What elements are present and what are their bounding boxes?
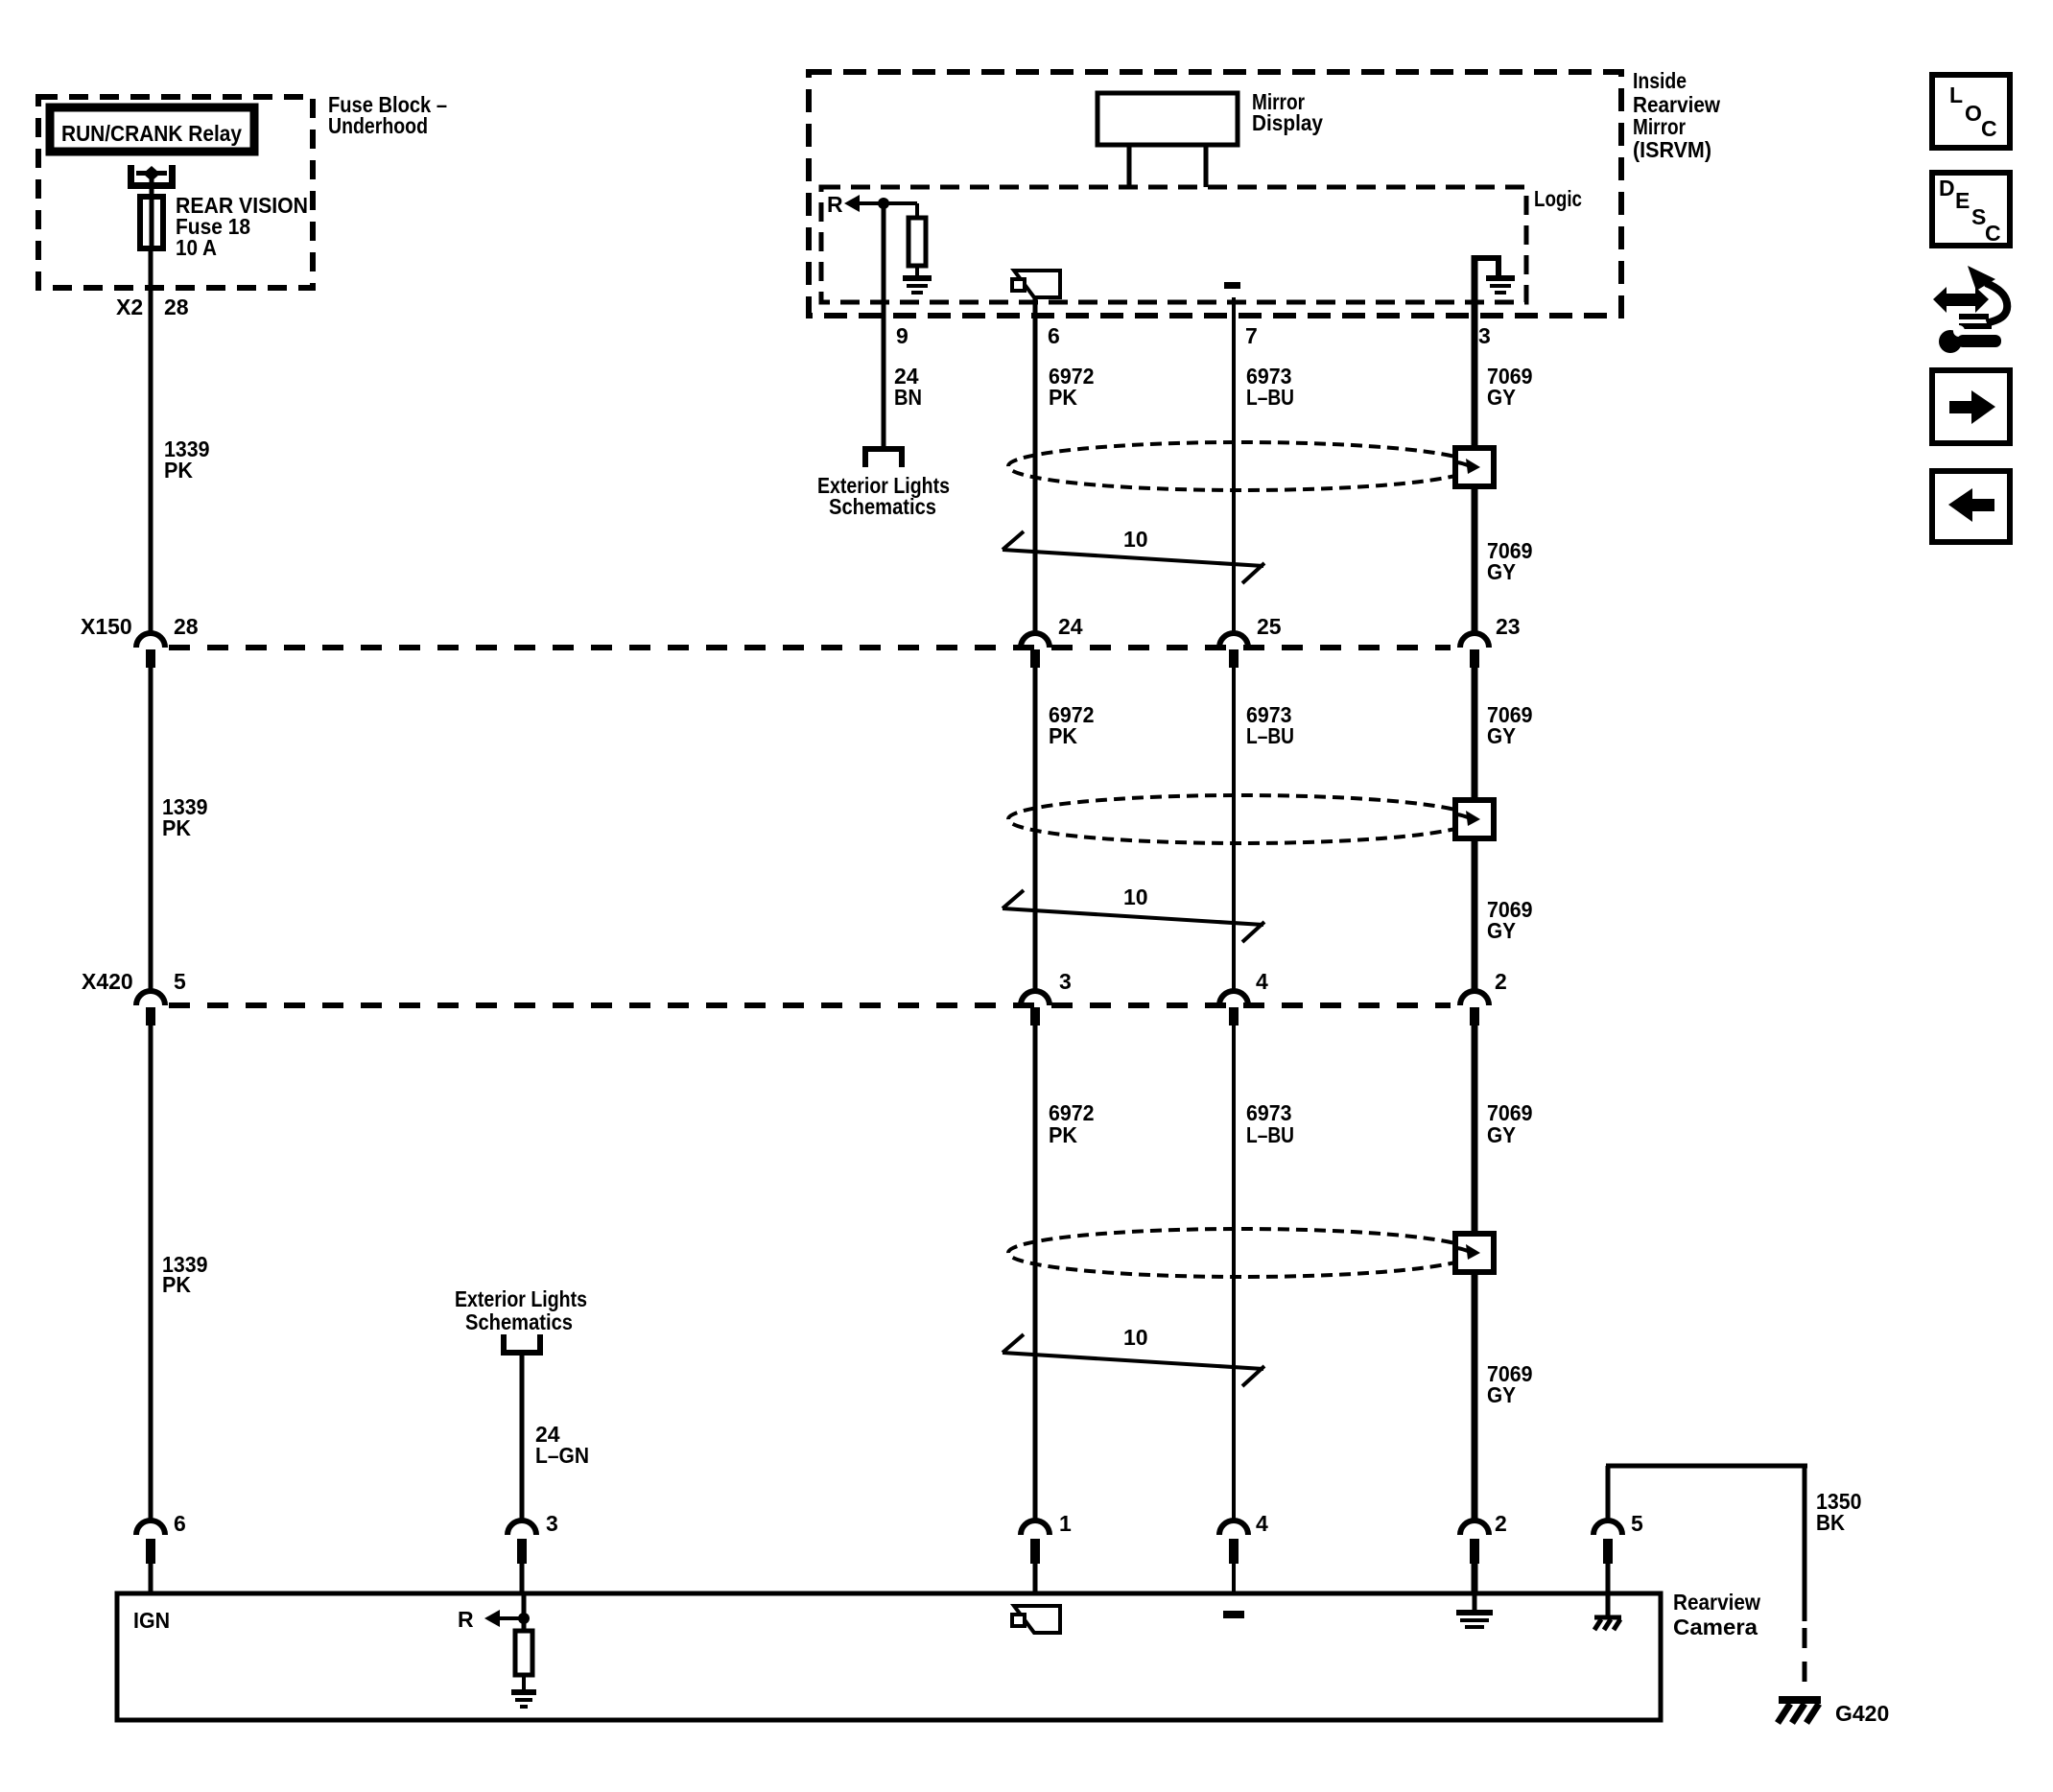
svg-text:6: 6 xyxy=(1048,323,1060,348)
cable 10 crossing xyxy=(1003,908,1263,925)
svg-text:10: 10 xyxy=(1123,527,1148,552)
camera icon logic xyxy=(1012,271,1060,297)
svg-text:PK: PK xyxy=(1049,385,1077,410)
svg-text:Underhood: Underhood xyxy=(328,113,428,138)
svg-text:10: 10 xyxy=(1123,1325,1148,1350)
fuse block underhood dashed box xyxy=(38,97,313,288)
svg-text:BN: BN xyxy=(894,385,922,410)
svg-text:(ISRVM): (ISRVM) xyxy=(1633,137,1711,162)
twisted pair shield ellipse xyxy=(1008,442,1475,490)
svg-text:GY: GY xyxy=(1487,1382,1516,1407)
icon repair instructions xyxy=(1933,266,2007,353)
svg-text:E: E xyxy=(1955,188,1970,213)
svg-text:PK: PK xyxy=(162,815,191,840)
mirror display box xyxy=(1097,93,1238,145)
connector X150 pin 23 xyxy=(1460,633,1489,648)
wire pin5 loop to 1350 BK xyxy=(1606,1466,1611,1521)
svg-text:GY: GY xyxy=(1487,1122,1516,1147)
wire 6972 PK section2 xyxy=(1033,667,1038,992)
connector row X150 dashed line xyxy=(169,645,1451,650)
fuse F18 REAR VISION 10A xyxy=(140,197,163,248)
svg-text:X150: X150 xyxy=(81,614,132,639)
cable 10 crossing xyxy=(1003,550,1263,566)
inline connector camera pin 2 xyxy=(1460,1521,1489,1535)
wire 7069 GY section2 xyxy=(1472,667,1478,992)
icon LOC xyxy=(1932,75,2010,148)
relay output pin symbol xyxy=(128,165,176,189)
svg-text:X420: X420 xyxy=(82,969,133,994)
svg-text:L–BU: L–BU xyxy=(1246,385,1294,410)
svg-text:23: 23 xyxy=(1496,614,1521,639)
svg-text:PK: PK xyxy=(1049,723,1077,748)
twisted pair shield ellipse xyxy=(1008,1229,1475,1277)
svg-text:1: 1 xyxy=(1059,1511,1072,1536)
svg-text:GY: GY xyxy=(1487,385,1516,410)
camera icon camera box xyxy=(1012,1606,1060,1633)
ground camera box xyxy=(511,1689,536,1695)
inline connector camera pin 5 xyxy=(1593,1521,1622,1535)
minus sign logic xyxy=(1224,282,1240,289)
svg-text:D: D xyxy=(1939,176,1955,200)
inline connector camera pin 6 xyxy=(136,1521,165,1535)
resistor camera box xyxy=(515,1631,532,1675)
svg-text:IGN: IGN xyxy=(133,1608,170,1633)
svg-text:7: 7 xyxy=(1245,323,1258,348)
connector X150 pin 24 xyxy=(1021,633,1050,648)
svg-text:4: 4 xyxy=(1256,969,1268,994)
wire 7069 GY pin 3 section1 xyxy=(1472,255,1478,634)
icon arrow left xyxy=(1932,471,2010,542)
wire 6972 PK section3 xyxy=(1033,1025,1038,1521)
icon DESC xyxy=(1932,173,2010,246)
svg-text:Rearview: Rearview xyxy=(1673,1590,1760,1615)
connector X420 pin 3 xyxy=(1021,991,1050,1005)
svg-text:Schematics: Schematics xyxy=(465,1309,573,1334)
relay RUN/CRANK Relay xyxy=(50,107,254,152)
connector row X420 dashed line xyxy=(169,1002,1451,1008)
svg-text:G420: G420 xyxy=(1835,1701,1889,1726)
logic dashed box xyxy=(821,187,1526,302)
svg-text:Schematics: Schematics xyxy=(829,494,936,519)
svg-text:Display: Display xyxy=(1252,110,1323,135)
svg-text:24: 24 xyxy=(1058,614,1083,639)
ground hook logic right xyxy=(1475,258,1498,276)
svg-text:C: C xyxy=(1981,116,1997,141)
shield termination box xyxy=(1455,448,1494,486)
svg-text:GY: GY xyxy=(1487,559,1516,584)
svg-text:Exterior Lights: Exterior Lights xyxy=(455,1286,587,1311)
rearview camera box xyxy=(117,1593,1661,1720)
connector X150 pin 25 xyxy=(1219,633,1248,648)
twisted pair shield ellipse xyxy=(1008,795,1475,843)
svg-text:5: 5 xyxy=(174,969,186,994)
wire 7069 GY section3 xyxy=(1472,1025,1478,1521)
wire 6973 L-BU pin 7 section1 xyxy=(1232,297,1236,634)
svg-text:Logic: Logic xyxy=(1534,186,1582,211)
svg-text:PK: PK xyxy=(162,1272,191,1297)
cable 10 crossing xyxy=(1003,1353,1263,1369)
inline connector camera pin 3 xyxy=(507,1521,536,1535)
svg-text:GY: GY xyxy=(1487,918,1516,943)
resistor logic xyxy=(915,203,919,218)
connector X420 pin 5 xyxy=(136,991,165,1005)
ground logic left xyxy=(903,275,932,281)
offpage connector exterior lights top xyxy=(862,446,905,467)
svg-text:6: 6 xyxy=(174,1511,186,1536)
svg-text:3: 3 xyxy=(1478,323,1491,348)
inline connector camera pin 4 xyxy=(1219,1521,1248,1535)
svg-text:RUN/CRANK Relay: RUN/CRANK Relay xyxy=(61,121,242,146)
wire 6972 PK pin 6 section1 xyxy=(1033,297,1038,634)
svg-text:Inside: Inside xyxy=(1633,68,1687,93)
svg-text:L–BU: L–BU xyxy=(1246,723,1294,748)
wire 24 BN pin 9 xyxy=(882,203,886,446)
svg-text:3: 3 xyxy=(546,1511,558,1536)
svg-text:Camera: Camera xyxy=(1673,1615,1758,1639)
minus sign camera box xyxy=(1223,1611,1244,1618)
ground camera box pin 2 xyxy=(1473,1593,1477,1610)
node R output camera box xyxy=(522,1593,527,1631)
svg-text:PK: PK xyxy=(1049,1122,1077,1147)
svg-text:X2: X2 xyxy=(116,295,143,319)
svg-text:PK: PK xyxy=(164,458,193,483)
svg-text:28: 28 xyxy=(174,614,199,639)
svg-text:GY: GY xyxy=(1487,723,1516,748)
svg-text:4: 4 xyxy=(1256,1511,1268,1536)
dashed wire to G420 xyxy=(1803,1628,1807,1694)
wire 1339 PK section2 xyxy=(149,667,153,992)
wire 6973 L-BU section3 xyxy=(1232,1025,1236,1521)
mirror display legs xyxy=(1127,147,1132,187)
svg-text:C: C xyxy=(1985,221,2001,246)
svg-text:R: R xyxy=(458,1607,474,1632)
svg-text:2: 2 xyxy=(1495,969,1507,994)
svg-text:L–GN: L–GN xyxy=(535,1443,589,1468)
svg-text:10: 10 xyxy=(1123,884,1148,909)
svg-text:10 A: 10 A xyxy=(176,235,217,260)
svg-text:R: R xyxy=(827,192,843,217)
connector X420 pin 4 xyxy=(1219,991,1248,1005)
svg-text:2: 2 xyxy=(1495,1511,1507,1536)
wire 24 L-GN xyxy=(520,1356,525,1521)
wire 1339 PK section1 xyxy=(149,251,153,634)
ground G420 xyxy=(1778,1700,1821,1723)
wire relay to fuse xyxy=(150,174,154,197)
shield termination box xyxy=(1455,1234,1494,1272)
icon arrow right xyxy=(1932,370,2010,443)
svg-text:9: 9 xyxy=(896,323,909,348)
chassis ground camera box pin 5 xyxy=(1594,1593,1621,1630)
svg-text:L–BU: L–BU xyxy=(1246,1122,1294,1147)
connector X420 pin 2 xyxy=(1460,991,1489,1005)
svg-text:O: O xyxy=(1965,101,1982,126)
shield termination box xyxy=(1455,800,1494,838)
svg-text:28: 28 xyxy=(164,295,189,319)
wire 6973 L-BU section2 xyxy=(1232,667,1236,992)
svg-text:5: 5 xyxy=(1631,1511,1643,1536)
ISRVM dashed box xyxy=(809,72,1621,316)
svg-text:25: 25 xyxy=(1257,614,1282,639)
wire 1339 PK section3 xyxy=(149,1025,153,1521)
svg-text:L: L xyxy=(1949,83,1963,107)
svg-text:BK: BK xyxy=(1816,1510,1845,1535)
svg-text:3: 3 xyxy=(1059,969,1072,994)
inline connector camera pin 1 xyxy=(1021,1521,1050,1535)
connector X150 pin 28 xyxy=(136,633,165,648)
svg-text:Mirror: Mirror xyxy=(1633,114,1686,139)
